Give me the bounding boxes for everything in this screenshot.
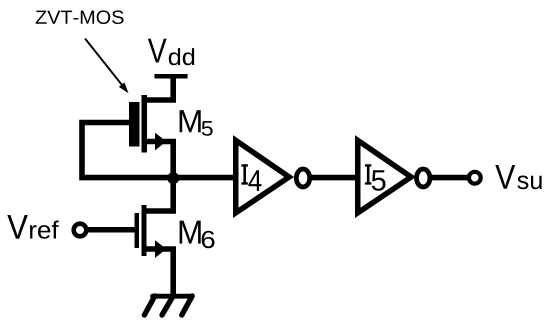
- label I4: [241, 164, 261, 191]
- transistor M6 source wire with arrow: [144, 240, 176, 296]
- wire node to inverter I4: [173, 175, 236, 181]
- power Vdd bar: [155, 74, 188, 79]
- inverter I5 triangle: [358, 140, 411, 213]
- wire Vdd stem to M5 drain: [144, 77, 173, 100]
- label M6: [180, 221, 215, 249]
- wire node to M6 drain: [144, 178, 173, 211]
- ground: [144, 296, 192, 315]
- inverter I4 triangle: [236, 140, 289, 213]
- label Vref: [7, 215, 58, 239]
- inverter I5 output bubble: [417, 169, 430, 187]
- label Vsu: [495, 165, 541, 189]
- node junction dot: [167, 172, 179, 184]
- inverter I4 output bubble: [296, 169, 309, 187]
- label I5: [365, 164, 386, 191]
- wire Vref to M6 gate: [87, 227, 135, 233]
- wire M5 gate feedback loop: [82, 123, 173, 178]
- terminal Vref: [74, 224, 87, 237]
- terminal Vsu: [469, 172, 481, 184]
- label M5: [180, 110, 213, 136]
- power Vdd label: [148, 39, 194, 65]
- transistor M6 gate plate: [135, 213, 140, 248]
- wire I5 to output terminal: [430, 175, 468, 181]
- label ZVT-MOS: [36, 10, 124, 24]
- wire I4 to I5: [310, 175, 359, 181]
- transistor M5 channel plate: [142, 95, 148, 153]
- transistor M6 channel plate: [142, 205, 147, 256]
- transistor M5 source wire with arrow: [144, 133, 176, 178]
- annotation arrow to M5 gate: [85, 39, 129, 94]
- transistor M5 gate plate (thick ZVT bar): [129, 102, 140, 147]
